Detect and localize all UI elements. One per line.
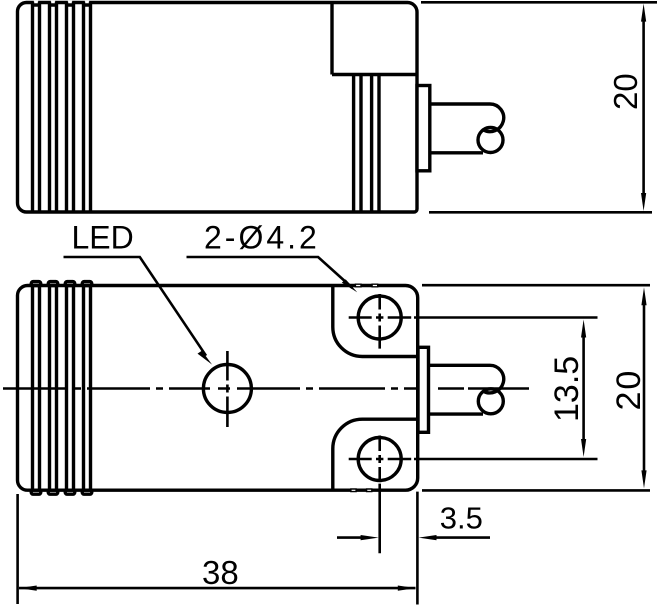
extension line bottom: [429, 211, 652, 214]
cap groove erasers on top edge: [34, 1, 38, 4]
svg-text:2-Ø4.2: 2-Ø4.2: [204, 220, 320, 256]
connector rib lines: [354, 75, 379, 213]
arrowhead down: [641, 470, 646, 488]
LED leader line: [64, 257, 207, 356]
svg-text:20: 20: [610, 369, 648, 411]
dimension line: [643, 304, 646, 472]
cap ridge bumps top: [31, 282, 41, 286]
right dimension line: [436, 536, 491, 539]
svg-text:38: 38: [202, 554, 239, 591]
plug cable top line: [429, 364, 491, 367]
LED crosshair vertical: [226, 351, 229, 427]
dimension line: [642, 20, 645, 195]
plug cable curl: [483, 365, 504, 393]
plug cable bottom line: [429, 151, 483, 154]
top edge notches: [355, 284, 377, 287]
extension line left: [16, 494, 19, 604]
horizontal centerline: [3, 387, 529, 390]
2-Ø4.2 leader arrowhead: [342, 279, 358, 292]
connector nub: [417, 86, 430, 171]
plug cable bottom line: [429, 412, 484, 415]
left dimension line: [337, 536, 362, 539]
lower ear cutout: [333, 419, 417, 490]
LED leader arrowhead: [198, 351, 213, 365]
lower hole crosshair: [349, 436, 412, 554]
top view body outline: [18, 3, 418, 213]
arrowhead down: [641, 193, 646, 211]
arrowhead down: [581, 439, 586, 457]
plug cable top line: [429, 102, 490, 105]
plug cable loop: [478, 128, 503, 153]
upper hole crosshair: [349, 294, 412, 349]
extension line bottom: [422, 489, 650, 492]
arrowhead right-pointing: [398, 586, 416, 591]
arrowhead up: [581, 320, 586, 338]
extension line top: [422, 284, 650, 287]
connector housing step: [332, 3, 417, 75]
upper ear cutout: [333, 286, 417, 357]
LED window circle: [203, 365, 251, 413]
plug cable loop: [478, 389, 503, 414]
upper mounting hole: [358, 296, 401, 339]
2-Ø4.2 leader line: [187, 257, 353, 288]
dimension line: [582, 336, 585, 440]
extension line lower: [414, 458, 598, 461]
arrowhead up: [641, 4, 646, 22]
svg-text:13.5: 13.5: [548, 356, 586, 422]
arrowhead right-pointing: [361, 535, 379, 540]
lower mounting hole: [358, 438, 401, 481]
svg-text:20: 20: [607, 73, 644, 110]
dimension line: [19, 587, 416, 590]
connector nub: [418, 347, 429, 432]
extension line top: [421, 1, 657, 4]
cap groove bottoms: [33, 3, 91, 6]
arrowhead left-pointing: [419, 535, 437, 540]
arrowhead up: [641, 287, 646, 305]
cap rib lines: [33, 286, 91, 491]
svg-text:3.5: 3.5: [440, 501, 483, 536]
extension line body right edge: [416, 492, 419, 605]
bottom view body outline: [18, 286, 418, 491]
cap ridge bumps bottom: [31, 490, 41, 494]
svg-text:LED: LED: [72, 220, 134, 256]
extension line upper: [414, 316, 598, 319]
cap rib lines: [33, 2, 91, 212]
bottom edge notches: [351, 489, 372, 492]
plug cable curl: [483, 104, 504, 132]
arrowhead left-pointing: [19, 586, 37, 591]
